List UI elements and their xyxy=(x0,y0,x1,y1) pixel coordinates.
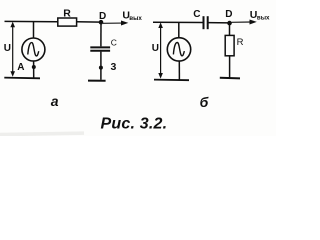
wire top rail left segment (b) xyxy=(153,21,203,23)
scan shading bottom left xyxy=(0,131,84,136)
svg-text:C: C xyxy=(193,9,200,20)
wire capacitor bottom lead (a) xyxy=(100,52,102,80)
voltage arrow U (circuit b, double headed) xyxy=(160,25,162,75)
wire capacitor top lead (a) xyxy=(100,22,102,46)
svg-text:б: б xyxy=(200,94,209,110)
resistor R (circuit a) xyxy=(58,18,77,26)
svg-text:A: A xyxy=(17,62,24,73)
wire source top connector (b) xyxy=(178,23,180,39)
voltage arrow U (circuit a, double headed) xyxy=(12,25,14,74)
svg-text:U: U xyxy=(4,43,11,54)
wire source bottom connector (b) xyxy=(178,61,180,80)
AC source G2 (circuit b) xyxy=(167,38,190,61)
sine symbol inside source (b) xyxy=(173,43,184,56)
node D (circuit b) xyxy=(227,21,232,26)
output arrow Uvyh (circuit a) xyxy=(103,22,123,24)
ground bar under capacitor (a) xyxy=(88,80,106,82)
svg-text:R: R xyxy=(237,37,244,48)
wire resistor top lead (b) xyxy=(229,23,231,35)
svg-text:U: U xyxy=(152,43,159,54)
node D (circuit a) xyxy=(99,20,104,25)
node 3 junction dot (a) xyxy=(99,66,103,70)
svg-text:R: R xyxy=(63,7,71,19)
resistor R (circuit b) xyxy=(225,35,234,55)
wire source top connector (a) xyxy=(33,22,35,39)
wire top rail right segment (b) xyxy=(208,22,229,24)
capacitor C (circuit b) left plate xyxy=(203,16,205,29)
ground bar under resistor (b) xyxy=(220,77,240,80)
bottom rail / common bar (circuit a) xyxy=(4,77,40,80)
svg-text:а: а xyxy=(51,93,59,109)
svg-text:C: C xyxy=(111,38,117,48)
wire resistor bottom lead (b) xyxy=(229,56,231,78)
svg-text:Рис. 3.2.: Рис. 3.2. xyxy=(101,115,168,132)
output arrow Uvyh (circuit b) xyxy=(232,21,251,23)
capacitor C (circuit b) right plate xyxy=(207,16,209,29)
svg-text:D: D xyxy=(225,9,232,20)
capacitor C (circuit a) bottom plate xyxy=(90,50,110,52)
svg-text:3: 3 xyxy=(111,61,117,73)
svg-text:вых: вых xyxy=(257,15,270,22)
AC source G1 (circuit a) xyxy=(22,38,45,61)
sine symbol inside source (a) xyxy=(28,43,39,56)
wire top rail left segment (a) xyxy=(5,20,58,22)
wire source bottom connector (a) xyxy=(33,61,35,78)
node A junction dot (a) xyxy=(32,65,36,69)
capacitor C (circuit a) top plate xyxy=(90,46,110,48)
svg-text:вых: вых xyxy=(129,15,142,22)
wire top rail right segment (a) xyxy=(76,21,101,23)
bottom rail / common bar (circuit b) xyxy=(154,79,189,82)
svg-text:D: D xyxy=(99,11,106,22)
